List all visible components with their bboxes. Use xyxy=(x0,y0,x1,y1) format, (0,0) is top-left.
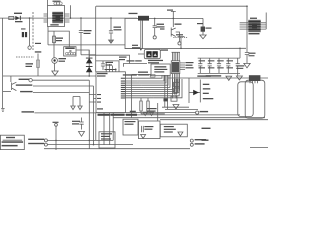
junction dot 1 xyxy=(80,17,82,19)
antenna loop outer xyxy=(245,80,265,118)
fan riser 8 xyxy=(149,79,177,94)
text C5 value xyxy=(157,24,165,25)
cap bank leg4 xyxy=(226,58,230,73)
text info box title xyxy=(6,137,15,138)
text R2 value xyxy=(56,38,63,39)
cap bank leg1 xyxy=(198,58,202,73)
net circle right 2 xyxy=(190,139,193,142)
diode D2 body xyxy=(138,16,149,21)
text fuse area value xyxy=(35,43,41,44)
wire above opto xyxy=(47,0,49,6)
text net label right 1 xyxy=(200,111,209,112)
diode D7 body xyxy=(193,90,199,95)
IC U1 left pins xyxy=(89,95,96,103)
wire R5 R6 join xyxy=(141,113,165,115)
text below D1 xyxy=(15,21,23,22)
net circle right 3 xyxy=(190,143,193,146)
text C7 value xyxy=(72,121,80,122)
node circle terminal 2 xyxy=(153,36,156,39)
small arrow pair 2 xyxy=(150,112,154,115)
zener D5b xyxy=(86,66,93,72)
junction dot 10 xyxy=(246,5,248,7)
rail ground left y76 xyxy=(3,75,96,77)
node circle terminal 3 xyxy=(178,42,181,45)
text box B2 rows xyxy=(164,126,174,127)
small part on fan xyxy=(150,75,155,78)
text VCC1 xyxy=(167,10,173,11)
net label circle 1 xyxy=(29,79,32,82)
text cap bank c3 xyxy=(217,60,224,61)
IC U1 top pins xyxy=(106,68,119,72)
text right of LED xyxy=(59,58,67,59)
ground cap bank xyxy=(236,76,242,80)
text C2 value xyxy=(114,27,122,28)
text cap bank c4 xyxy=(227,60,234,61)
ground under Q3 xyxy=(200,35,206,39)
capacitor C1 lower lead xyxy=(80,32,82,54)
text crystal value xyxy=(144,126,153,127)
small IC U2 right pins xyxy=(180,63,185,69)
node circle terminal xyxy=(28,46,31,49)
connector J2 center dash xyxy=(69,50,71,51)
IC U3 center dot xyxy=(252,24,257,29)
text cap bank c2 xyxy=(208,60,215,61)
fan riser 2 xyxy=(137,75,164,81)
text VR1 xyxy=(35,51,42,52)
cap bank bottom rail xyxy=(198,72,240,74)
snubber box X1 xyxy=(125,18,142,48)
bus y107.2 xyxy=(162,106,189,108)
text fan labels 1 xyxy=(123,74,137,75)
text in box B3 xyxy=(154,66,166,67)
dual diode D6b arrow xyxy=(154,53,157,56)
text C3 value xyxy=(106,62,114,63)
regulator Q3 body xyxy=(201,27,205,32)
resistor R2 body xyxy=(53,36,56,43)
regulator Q3 branch xyxy=(202,18,204,26)
VCC ball pin xyxy=(55,123,58,126)
capacitor C5 plates xyxy=(153,26,157,28)
wire mid vertical x95.8 xyxy=(95,113,97,141)
LED D4 circle xyxy=(52,58,58,64)
text Q2 label xyxy=(175,24,182,25)
rail mid y48.4 xyxy=(125,47,246,49)
text above T1 xyxy=(53,1,61,2)
opto U5 box xyxy=(48,6,65,27)
resistor VR1 squiggle xyxy=(37,60,40,67)
junction dot 4 xyxy=(173,18,175,20)
dashed net y37.6 xyxy=(173,37,188,39)
junction dot 5 xyxy=(70,17,72,19)
diode-connector box J2 xyxy=(64,47,76,56)
regulator Q3 to ground lead xyxy=(202,32,204,36)
junction dot 7 xyxy=(180,48,182,50)
junction dot 14 xyxy=(93,144,95,146)
ground arrow B lead xyxy=(79,97,81,107)
IC U1 fan pins xyxy=(125,78,153,98)
box B1 crystal xyxy=(139,121,161,139)
text rows under D6 xyxy=(148,60,163,61)
wire IC top feed 1 xyxy=(89,55,129,63)
fan riser 7 xyxy=(147,79,174,91)
wire gnd arrows feed xyxy=(73,96,80,98)
diode D7 wire xyxy=(189,92,200,94)
antenna loop inner xyxy=(238,82,253,117)
box B3 xyxy=(151,64,170,76)
IC U4 body xyxy=(249,75,261,81)
wire C5 to terminal xyxy=(154,28,156,36)
text net label right 3 xyxy=(195,143,205,144)
dashed horizontal CN1 bottom xyxy=(16,56,34,58)
wire bottom right corner xyxy=(250,147,268,149)
text C1 value xyxy=(84,30,92,31)
fan riser 6 xyxy=(145,79,172,89)
text under IC U1 xyxy=(98,114,110,116)
text IC U1 left labels xyxy=(97,94,101,95)
wire C6 to ground xyxy=(246,55,248,64)
dual diode D6a xyxy=(146,51,151,57)
IC U1 box xyxy=(96,72,125,113)
box bottom-left info xyxy=(0,135,24,149)
text bottom-left wire label 1 xyxy=(28,139,44,140)
capacitor C1 plates xyxy=(79,31,83,33)
wire right edge xyxy=(265,13,267,30)
wire x189 vertical xyxy=(188,78,190,103)
ground arrow C7 xyxy=(79,132,85,137)
crystal Y1 xyxy=(142,126,144,132)
wire mid verticals x109.7 xyxy=(109,113,111,145)
wire ball pin down xyxy=(55,126,57,150)
wire varistor branch xyxy=(29,18,31,46)
wire bottom net 1 xyxy=(47,139,113,141)
text C6 value xyxy=(249,53,256,54)
text IC U1 inner bottom xyxy=(97,108,103,109)
small component on fan xyxy=(164,98,168,101)
small IC U2 bottom pins xyxy=(173,74,180,99)
junction dot 8 xyxy=(239,48,241,50)
capacitor C1 lead xyxy=(80,18,82,31)
wire opto left pins xyxy=(44,14,48,22)
text above U3 xyxy=(250,18,257,19)
wire x167.6 vertical xyxy=(167,75,169,109)
ground arrow Y1 xyxy=(141,135,146,139)
VCC2 tee xyxy=(178,37,185,49)
VCC1 tee xyxy=(171,11,176,18)
bus line y112.6 xyxy=(96,112,196,114)
bus line y117.7 xyxy=(113,117,265,119)
wire net y78 right xyxy=(168,77,268,79)
fan riser 9 xyxy=(151,79,179,96)
wire into D6 xyxy=(138,53,144,55)
text right top label xyxy=(197,75,211,76)
ground under LED xyxy=(52,71,58,75)
text below U3 xyxy=(249,33,260,34)
text D6 label xyxy=(161,49,169,50)
text R5 R6 values xyxy=(147,108,157,109)
junction dot 13 xyxy=(89,140,91,142)
ground under C6 xyxy=(244,63,250,67)
wire mid verticals x113.2 xyxy=(112,113,114,141)
text near snubber bottom xyxy=(132,47,140,48)
capacitor C7 xyxy=(79,118,83,130)
ground under C2 xyxy=(109,40,114,43)
text bottom right corner 1 xyxy=(202,128,211,129)
small rect RP3 xyxy=(171,96,177,101)
wire mid vertical x104 xyxy=(103,113,105,145)
text box A rows xyxy=(101,133,112,134)
text Q3 label xyxy=(197,23,203,24)
text IC U1 right labels xyxy=(121,78,125,79)
text above D2 xyxy=(129,13,138,14)
text cap bank c1 xyxy=(199,60,206,61)
wire left border xyxy=(2,18,4,108)
wire LED to ground xyxy=(54,63,56,71)
junction dot 9 xyxy=(88,75,90,77)
text Q1 label xyxy=(17,83,19,85)
box A xyxy=(99,132,115,148)
small IC U2 rail xyxy=(172,51,181,53)
wire bottom y148.7 xyxy=(44,148,190,150)
transformer T1 circles xyxy=(54,2,62,5)
wire zener to box xyxy=(81,54,96,56)
resistor VR1 vertical xyxy=(37,54,39,77)
fan riser 4 xyxy=(141,75,168,85)
wire crystal feed xyxy=(157,103,159,121)
wire transformer secondary xyxy=(70,5,72,18)
dual diode D6b xyxy=(152,51,157,57)
text near wire turn xyxy=(119,57,127,58)
wire diode D2 down xyxy=(140,21,143,50)
text net label 2 xyxy=(16,84,33,85)
wire vertical x93.5 xyxy=(93,86,95,145)
IC U4 pins xyxy=(250,81,258,83)
wire AC input top xyxy=(0,17,33,19)
connector dashed line CN1 xyxy=(32,12,34,50)
text feedback label 3 xyxy=(138,72,148,73)
wire top box rail xyxy=(96,5,247,7)
text cap bank c5 xyxy=(236,65,244,66)
text VCC2 xyxy=(176,34,183,35)
text below cap bank xyxy=(206,75,222,76)
transistor Q2 branch xyxy=(172,18,174,27)
capacitor C6 on x246 xyxy=(245,53,249,55)
wire bottom net 2 xyxy=(47,144,133,146)
LED D4 dot xyxy=(53,59,55,61)
wire Q2 emitter to circle xyxy=(176,32,180,42)
small arrow pair 1 xyxy=(143,112,147,115)
net circle bottom left 2 xyxy=(44,143,47,146)
ground arrow U2 xyxy=(173,105,179,110)
text below opto xyxy=(50,24,58,25)
text IC U1 inside top xyxy=(97,73,108,74)
wire Q1 to border xyxy=(3,91,11,93)
dual diode D6a arrow xyxy=(148,53,151,56)
cap bank feed xyxy=(239,48,241,58)
dual diode box D6 xyxy=(144,49,160,58)
cap bank top rail xyxy=(198,57,240,59)
fan riser 5 xyxy=(143,75,170,87)
opto U5 inner rows xyxy=(52,13,63,20)
box K xyxy=(123,119,138,135)
wire feedback y63 xyxy=(124,64,148,67)
text bottom-left wire label 2 xyxy=(28,143,44,144)
IC U3 right pins xyxy=(261,23,266,29)
wire zener branch top xyxy=(77,50,90,57)
wire net1 xyxy=(32,79,89,81)
text right column labels xyxy=(203,84,210,85)
wire branch y31 xyxy=(48,31,69,47)
wire vertical x95.7 xyxy=(95,6,97,72)
junction dot 2 xyxy=(110,17,112,19)
wire IC top feed 2 xyxy=(96,61,119,68)
wire opto bottom branch xyxy=(47,27,49,45)
fuse F1 xyxy=(9,16,14,19)
box B2 xyxy=(160,124,187,137)
wire x200 vertical xyxy=(199,80,201,103)
connector J2 circles xyxy=(66,52,76,55)
capacitor C2 plates xyxy=(109,31,113,33)
IC U3 inner rows xyxy=(248,22,260,30)
bus line y114.9 xyxy=(100,114,240,116)
ground mark left border xyxy=(1,109,4,112)
opto U5 center dot xyxy=(56,15,61,20)
junction dot 11 xyxy=(29,17,31,19)
wire IC top feed stubs xyxy=(106,63,112,69)
ground arrow right top xyxy=(226,76,232,80)
wire x131.6 vertical xyxy=(131,75,133,118)
text above varistor xyxy=(21,28,26,29)
zener D5a xyxy=(86,58,93,64)
text VCC ball label xyxy=(53,122,59,123)
wire y45 feed xyxy=(48,44,125,46)
zener D5 line xyxy=(88,50,90,76)
wire vertical x89.3 xyxy=(88,80,90,149)
transistor Q1 lead xyxy=(10,76,12,82)
cap bank leg2 xyxy=(208,58,212,73)
ground arrow B xyxy=(78,106,82,110)
resistor R2 lead xyxy=(53,31,55,58)
transistor Q2 body xyxy=(171,28,176,37)
IC U3 body xyxy=(248,20,260,32)
resistor R5 xyxy=(140,98,142,114)
wire top rail right of diode D2 xyxy=(149,17,203,19)
text fan labels 2 xyxy=(138,74,149,75)
resistor R6 xyxy=(147,98,149,114)
text box K rows xyxy=(125,121,136,122)
text feedback label 1 xyxy=(127,60,135,61)
text above D1 xyxy=(14,13,22,14)
wire net2 xyxy=(33,85,94,87)
capacitor C3 xyxy=(101,61,105,70)
text IC U1 pin numbers top xyxy=(105,69,117,70)
capacitor C2 to ground xyxy=(110,33,112,40)
fan riser 3 xyxy=(139,75,166,83)
varistor RV1 body2 xyxy=(25,32,27,37)
varistor RV1 body xyxy=(22,32,24,37)
ground arrow A lead xyxy=(72,97,74,107)
ground arrow B2 xyxy=(178,132,183,136)
wire net4 xyxy=(34,112,96,114)
text net label 4 xyxy=(22,111,35,112)
wire main top rail xyxy=(20,17,137,19)
text net label 1 xyxy=(19,79,30,80)
text bottom right corner 2 xyxy=(202,140,209,141)
transistor Q1 body xyxy=(12,82,17,90)
info box divider xyxy=(3,139,23,141)
text bus label near IC corner xyxy=(130,111,136,113)
junction dot 12 xyxy=(55,140,57,142)
net circle right 1 xyxy=(196,111,199,114)
small IC U2 dark marks xyxy=(172,62,179,73)
diode D1 body xyxy=(15,16,21,21)
IC U3 left pins xyxy=(240,23,249,29)
text feedback label 2 xyxy=(135,60,142,61)
junction dot 3 xyxy=(154,18,156,20)
text J2 inside xyxy=(65,47,74,49)
wire vertical at x246 xyxy=(246,6,248,52)
cap bank leg3 xyxy=(217,58,221,73)
wire net3 xyxy=(33,92,89,94)
text net label right 2 xyxy=(195,139,207,140)
text CN dashed label xyxy=(26,63,34,64)
fan riser 10 xyxy=(153,79,182,98)
fan riser 1 xyxy=(135,75,162,78)
wire cap C5 branch xyxy=(154,18,156,25)
cap bank leg5 xyxy=(236,58,240,76)
text info box row2 xyxy=(2,141,24,143)
text info box row3 xyxy=(2,145,18,147)
opto U5 dark center xyxy=(52,12,63,23)
wire x164.8 vertical xyxy=(164,75,166,107)
wire feedback y74.5 xyxy=(132,74,151,76)
text right of U2 xyxy=(186,62,194,63)
bus y109.4 xyxy=(165,108,198,110)
net circle bottom left 1 xyxy=(44,139,47,142)
small IC U2 body xyxy=(171,61,180,74)
resistor pack RP2 xyxy=(174,88,180,92)
capacitor C2 lead xyxy=(110,18,112,31)
small IC U2 pins top xyxy=(172,52,179,61)
bus line y119.7 xyxy=(160,119,268,121)
resistor pack RP1 xyxy=(174,82,180,86)
junction dot 6 xyxy=(140,49,142,51)
wire opto right pins xyxy=(65,14,70,22)
text net label 3 xyxy=(20,91,32,92)
ground arrow A xyxy=(71,106,75,110)
